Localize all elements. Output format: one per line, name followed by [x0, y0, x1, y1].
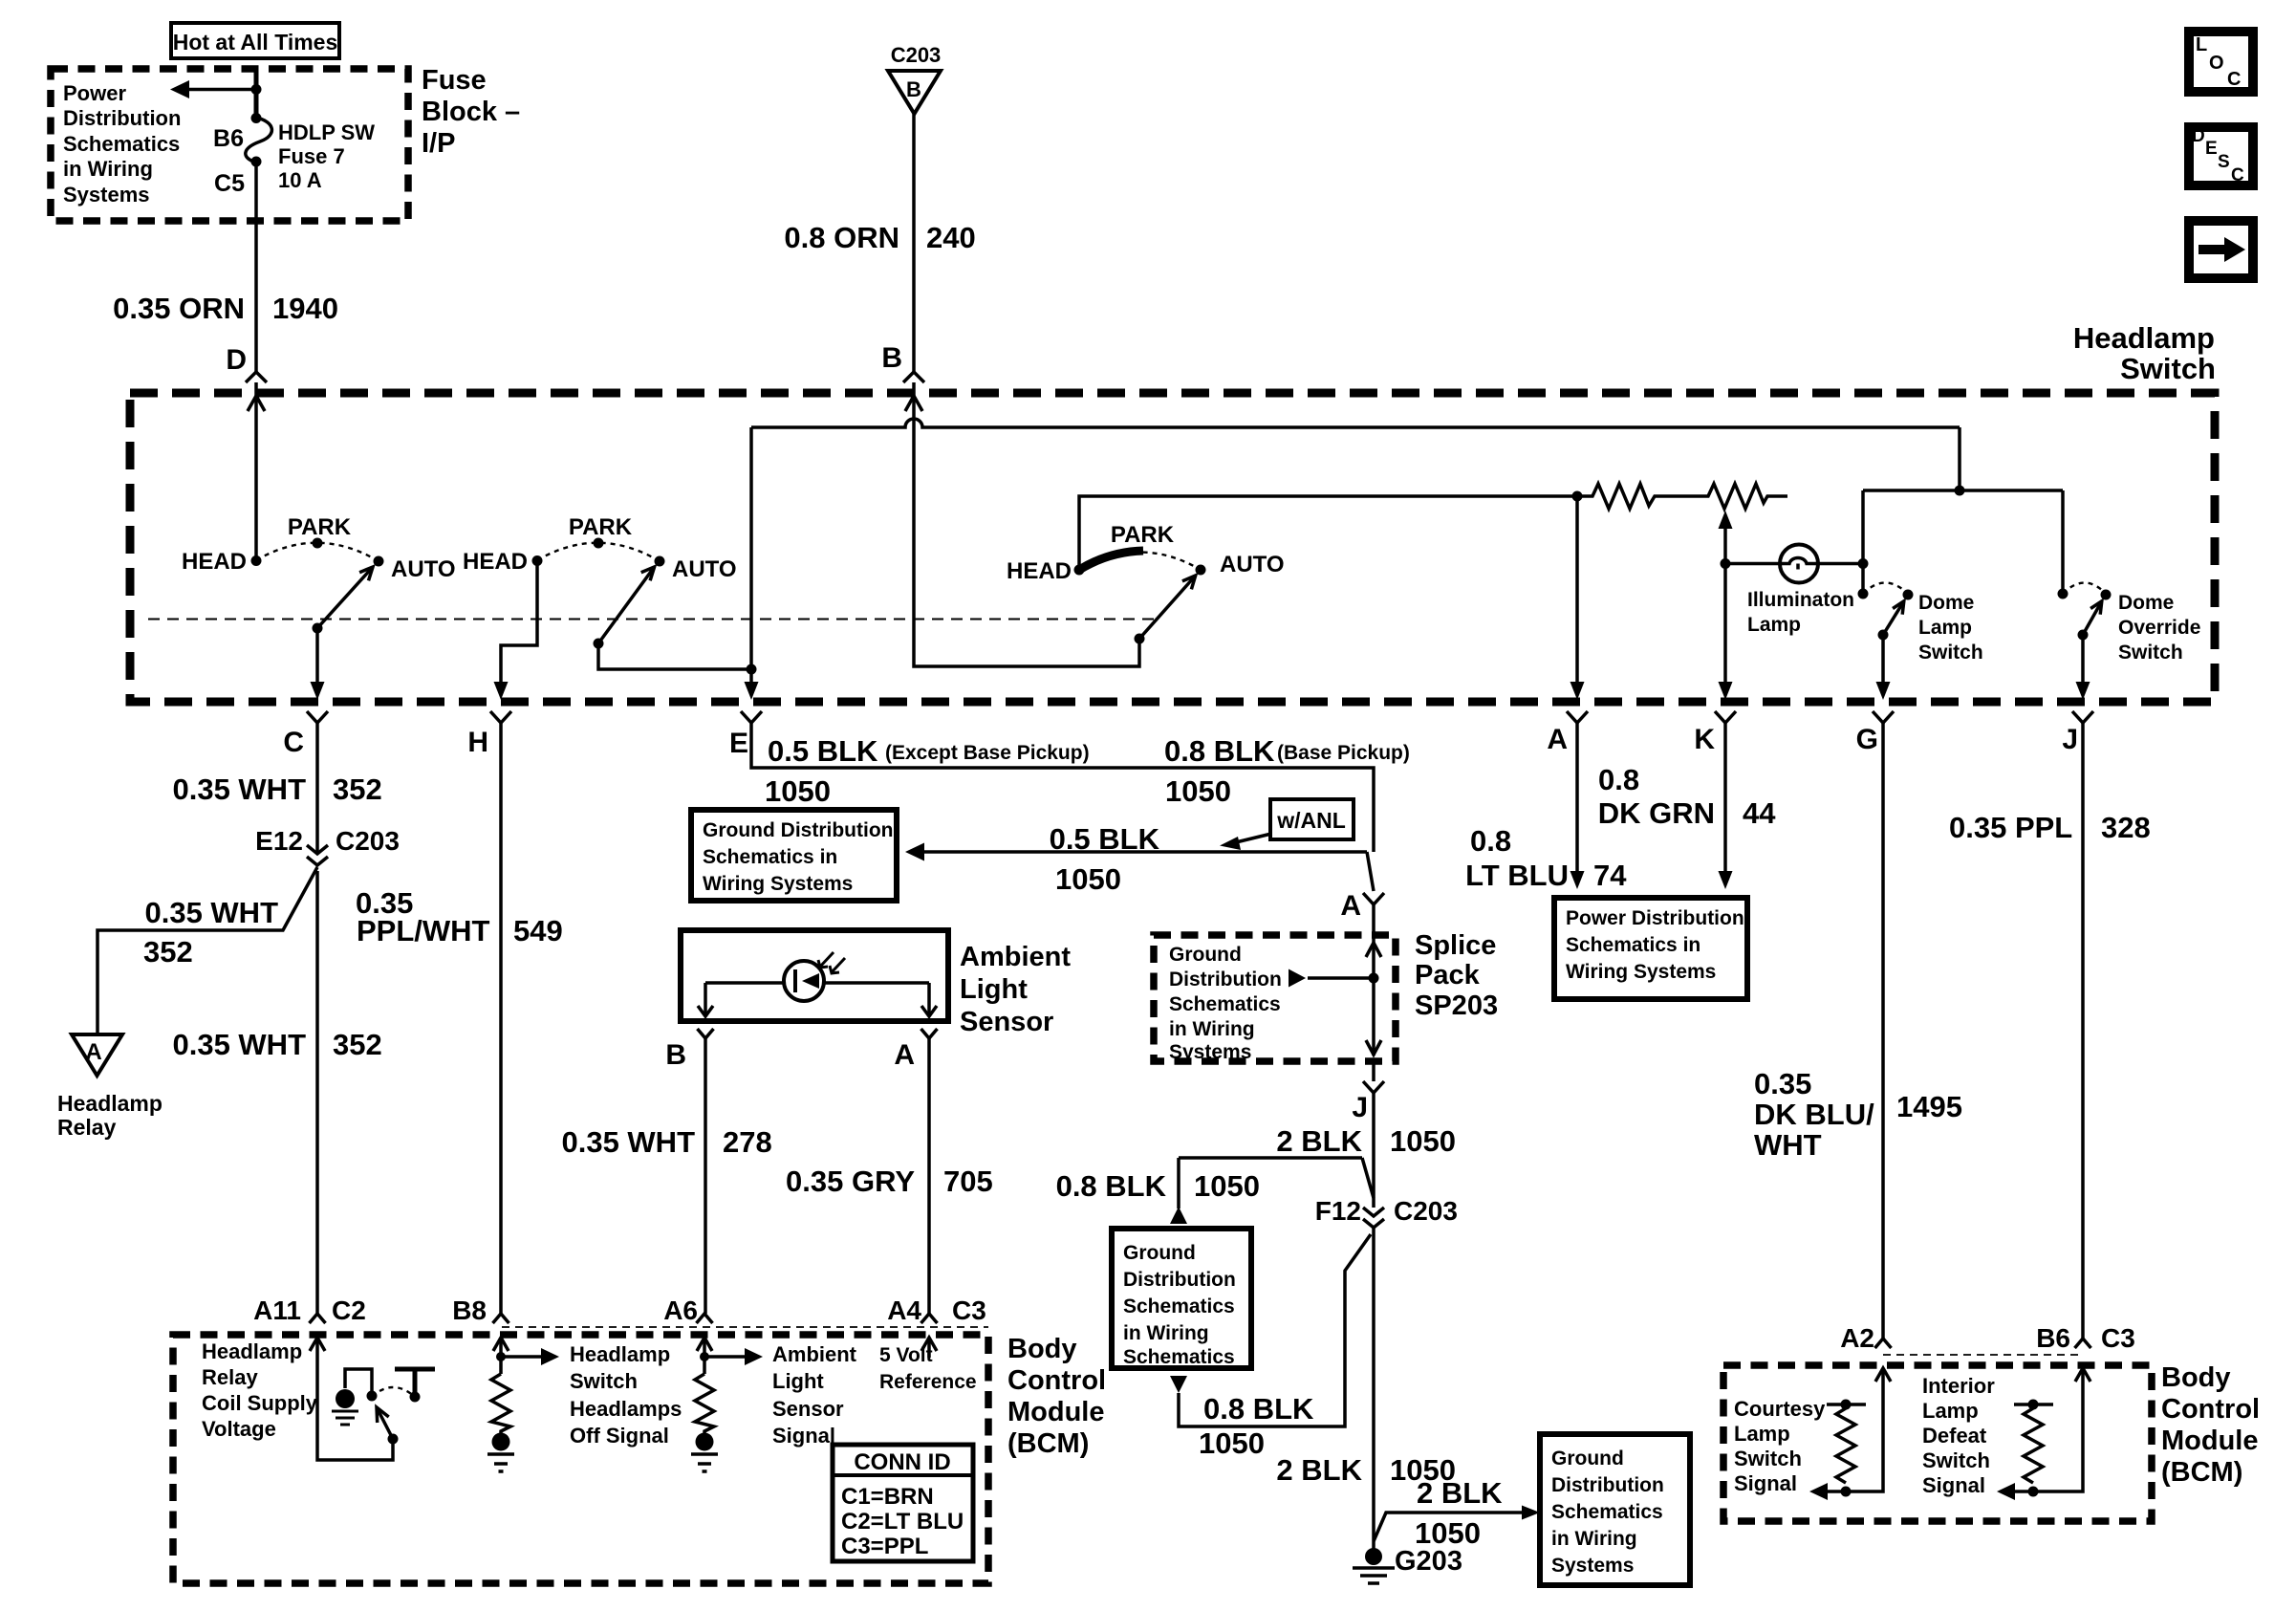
svg-text:D: D [226, 344, 247, 376]
svg-text:0.35 WHT: 0.35 WHT [561, 1125, 695, 1159]
svg-text:Off Signal: Off Signal [570, 1424, 669, 1448]
svg-text:J: J [1352, 1092, 1368, 1123]
svg-text:Headlamp: Headlamp [202, 1339, 302, 1363]
svg-text:Block –: Block – [422, 97, 520, 127]
svg-text:A6: A6 [663, 1295, 698, 1325]
svg-text:Ambient: Ambient [772, 1342, 857, 1366]
svg-text:A11: A11 [253, 1295, 301, 1325]
svg-text:Illuminaton: Illuminaton [1747, 589, 1854, 611]
svg-text:Switch: Switch [1918, 642, 1983, 664]
svg-text:B: B [906, 77, 921, 101]
svg-text:LT BLU: LT BLU [1465, 859, 1569, 892]
svg-text:(BCM): (BCM) [2161, 1457, 2242, 1488]
svg-text:in Wiring: in Wiring [1123, 1322, 1209, 1344]
svg-text:C3=PPL: C3=PPL [841, 1534, 928, 1559]
svg-text:B: B [665, 1039, 686, 1071]
svg-text:F12: F12 [1315, 1196, 1361, 1226]
svg-text:K: K [1694, 724, 1715, 755]
svg-text:A: A [85, 1039, 101, 1065]
svg-text:B8: B8 [452, 1295, 487, 1325]
svg-text:Signal: Signal [1922, 1473, 1985, 1497]
svg-text:Distribution: Distribution [1551, 1474, 1664, 1496]
svg-text:Fuse 7: Fuse 7 [278, 144, 345, 168]
svg-text:0.8 ORN: 0.8 ORN [784, 221, 899, 254]
svg-text:S: S [2218, 152, 2230, 172]
svg-text:2 BLK: 2 BLK [1417, 1476, 1503, 1510]
svg-text:Light: Light [960, 974, 1028, 1005]
svg-text:2 BLK: 2 BLK [1276, 1124, 1362, 1158]
svg-text:0.35 ORN: 0.35 ORN [113, 292, 245, 325]
svg-text:in Wiring: in Wiring [1169, 1018, 1255, 1040]
svg-text:0.8 BLK: 0.8 BLK [1056, 1169, 1167, 1203]
svg-text:0.8: 0.8 [1598, 763, 1639, 796]
svg-text:A: A [1547, 724, 1568, 755]
svg-text:CONN ID: CONN ID [854, 1449, 950, 1475]
svg-text:C5: C5 [214, 170, 245, 197]
svg-text:1940: 1940 [272, 292, 338, 325]
svg-text:E12: E12 [255, 826, 303, 856]
svg-text:Ground: Ground [1123, 1242, 1196, 1264]
svg-text:1050: 1050 [1390, 1124, 1456, 1158]
svg-text:G203: G203 [1395, 1546, 1462, 1577]
svg-text:AUTO: AUTO [1220, 552, 1285, 577]
svg-text:PARK: PARK [288, 514, 352, 540]
svg-text:B6: B6 [213, 125, 244, 152]
svg-text:C3: C3 [2101, 1323, 2135, 1353]
svg-text:Systems: Systems [1169, 1041, 1251, 1063]
svg-text:705: 705 [943, 1165, 993, 1198]
svg-text:(Except Base Pickup): (Except Base Pickup) [885, 742, 1090, 764]
svg-text:HEAD: HEAD [1007, 558, 1072, 584]
svg-text:Body: Body [1007, 1334, 1077, 1364]
svg-text:328: 328 [2101, 811, 2151, 844]
svg-text:Headlamp: Headlamp [570, 1342, 670, 1366]
svg-text:C203: C203 [336, 826, 400, 856]
svg-text:in Wiring: in Wiring [1551, 1528, 1637, 1550]
svg-text:Coil Supply: Coil Supply [202, 1391, 318, 1415]
svg-text:44: 44 [1743, 796, 1776, 830]
svg-text:0.35: 0.35 [1754, 1067, 1811, 1100]
svg-text:0.8: 0.8 [1470, 824, 1511, 858]
svg-text:Distribution: Distribution [63, 106, 181, 130]
svg-text:Headlamp: Headlamp [57, 1091, 162, 1116]
svg-text:Schematics: Schematics [63, 132, 180, 156]
svg-text:74: 74 [1593, 859, 1627, 892]
svg-text:Module: Module [2161, 1426, 2259, 1456]
svg-text:C3: C3 [952, 1295, 986, 1325]
svg-text:10 A: 10 A [278, 168, 322, 192]
svg-text:1495: 1495 [1896, 1090, 1962, 1123]
svg-text:Schematics: Schematics [1123, 1295, 1235, 1317]
svg-text:Schematics: Schematics [1123, 1346, 1235, 1368]
svg-text:Pack: Pack [1415, 960, 1481, 991]
svg-text:H: H [467, 727, 488, 758]
svg-text:C: C [2231, 165, 2244, 185]
svg-text:0.35 WHT: 0.35 WHT [172, 1028, 306, 1061]
svg-text:Lamp: Lamp [1922, 1399, 1979, 1423]
svg-text:Ground Distribution: Ground Distribution [703, 819, 893, 841]
svg-text:Dome: Dome [1918, 592, 1974, 614]
svg-text:1050: 1050 [1199, 1426, 1265, 1460]
svg-text:240: 240 [926, 221, 976, 254]
svg-text:Headlamp: Headlamp [2073, 321, 2215, 355]
svg-text:DK BLU/: DK BLU/ [1754, 1098, 1874, 1131]
svg-text:Switch: Switch [1922, 1448, 1990, 1472]
svg-text:Lamp: Lamp [1747, 614, 1801, 636]
svg-text:Dome: Dome [2118, 592, 2174, 614]
svg-text:352: 352 [143, 935, 193, 969]
svg-text:Schematics: Schematics [1169, 993, 1281, 1015]
svg-text:549: 549 [513, 914, 563, 947]
svg-text:O: O [2209, 53, 2224, 74]
svg-text:Hot at All Times: Hot at All Times [173, 30, 338, 54]
svg-text:E: E [2205, 139, 2218, 159]
svg-text:C1=BRN: C1=BRN [841, 1484, 934, 1510]
svg-text:Schematics in: Schematics in [1566, 934, 1700, 956]
svg-text:PARK: PARK [1111, 522, 1175, 548]
svg-text:Signal: Signal [772, 1424, 835, 1448]
svg-text:0.8 BLK: 0.8 BLK [1203, 1392, 1314, 1426]
svg-text:Systems: Systems [1551, 1555, 1634, 1577]
svg-text:A4: A4 [887, 1295, 921, 1325]
svg-text:0.5 BLK: 0.5 BLK [1050, 822, 1160, 856]
svg-text:WHT: WHT [1754, 1128, 1822, 1162]
svg-text:Switch: Switch [570, 1369, 638, 1393]
svg-text:PARK: PARK [569, 514, 633, 540]
svg-text:B6: B6 [2036, 1323, 2070, 1353]
svg-text:Override: Override [2118, 617, 2200, 639]
svg-text:w/ANL: w/ANL [1276, 808, 1346, 833]
svg-text:Wiring Systems: Wiring Systems [703, 873, 853, 895]
svg-text:Systems: Systems [63, 183, 150, 207]
svg-text:(Base Pickup): (Base Pickup) [1277, 742, 1410, 764]
svg-text:Ambient: Ambient [960, 942, 1071, 972]
svg-text:Schematics in: Schematics in [703, 846, 837, 868]
svg-text:Voltage: Voltage [202, 1417, 276, 1441]
svg-text:C: C [283, 727, 304, 758]
svg-text:E: E [729, 728, 748, 759]
svg-text:Power Distribution: Power Distribution [1566, 907, 1744, 929]
svg-text:Body: Body [2161, 1362, 2231, 1393]
svg-text:B: B [881, 342, 902, 374]
svg-text:A: A [894, 1039, 915, 1071]
svg-text:Interior: Interior [1922, 1374, 1995, 1398]
svg-text:G: G [1856, 724, 1878, 755]
svg-text:Relay: Relay [202, 1365, 258, 1389]
svg-text:SP203: SP203 [1415, 991, 1498, 1021]
svg-text:AUTO: AUTO [672, 556, 737, 582]
svg-text:C: C [2227, 69, 2241, 90]
svg-text:Control: Control [2161, 1394, 2260, 1425]
svg-text:5 Volt: 5 Volt [879, 1344, 933, 1366]
svg-text:0.35 WHT: 0.35 WHT [172, 773, 306, 806]
svg-text:1050: 1050 [1194, 1169, 1260, 1203]
svg-text:PPL/WHT: PPL/WHT [357, 914, 490, 947]
svg-text:Signal: Signal [1734, 1471, 1797, 1495]
svg-text:Lamp: Lamp [1734, 1422, 1790, 1446]
svg-text:C203: C203 [1394, 1196, 1458, 1226]
svg-text:Reference: Reference [879, 1371, 977, 1393]
svg-text:Switch: Switch [1734, 1447, 1802, 1470]
svg-text:Ground: Ground [1551, 1448, 1624, 1469]
svg-text:Splice: Splice [1415, 930, 1496, 961]
svg-text:D: D [2192, 126, 2205, 146]
svg-text:278: 278 [723, 1125, 772, 1159]
svg-text:Wiring Systems: Wiring Systems [1566, 961, 1716, 983]
svg-text:0.35 PPL: 0.35 PPL [1949, 811, 2072, 844]
svg-text:I/P: I/P [422, 128, 455, 159]
svg-text:C203: C203 [891, 43, 942, 67]
svg-text:HEAD: HEAD [463, 549, 528, 575]
svg-text:J: J [2062, 724, 2078, 755]
svg-text:AUTO: AUTO [391, 556, 456, 582]
svg-text:0.8 BLK: 0.8 BLK [1164, 734, 1275, 768]
svg-text:1050: 1050 [1055, 862, 1121, 896]
svg-text:L: L [2196, 34, 2207, 55]
svg-text:Relay: Relay [57, 1115, 117, 1140]
svg-text:Courtesy: Courtesy [1734, 1397, 1826, 1421]
svg-text:Module: Module [1007, 1397, 1105, 1427]
svg-text:Control: Control [1007, 1365, 1106, 1396]
svg-text:C2: C2 [332, 1295, 366, 1325]
svg-text:0.35 GRY: 0.35 GRY [786, 1165, 915, 1198]
svg-text:C2=LT BLU: C2=LT BLU [841, 1509, 964, 1535]
svg-text:Distribution: Distribution [1123, 1269, 1236, 1291]
svg-text:Schematics: Schematics [1551, 1501, 1663, 1523]
svg-text:0.35 WHT: 0.35 WHT [144, 896, 278, 929]
svg-text:352: 352 [333, 1028, 382, 1061]
svg-text:Light: Light [772, 1369, 824, 1393]
svg-text:A2: A2 [1840, 1323, 1874, 1353]
svg-text:Ground: Ground [1169, 944, 1242, 966]
svg-text:Switch: Switch [2118, 642, 2183, 664]
svg-text:(BCM): (BCM) [1007, 1428, 1089, 1459]
svg-text:Fuse: Fuse [422, 65, 487, 96]
svg-text:A: A [1340, 890, 1361, 922]
svg-text:Defeat: Defeat [1922, 1424, 1987, 1448]
svg-text:1050: 1050 [1415, 1516, 1481, 1550]
svg-text:HEAD: HEAD [182, 549, 247, 575]
svg-text:2 BLK: 2 BLK [1276, 1453, 1362, 1487]
svg-text:Headlamps: Headlamps [570, 1397, 682, 1421]
svg-text:0.5 BLK: 0.5 BLK [768, 734, 878, 768]
svg-text:Distribution: Distribution [1169, 969, 1282, 991]
svg-text:Sensor: Sensor [772, 1397, 844, 1421]
svg-text:Switch: Switch [2120, 352, 2216, 385]
svg-text:Sensor: Sensor [960, 1007, 1053, 1037]
svg-text:in Wiring: in Wiring [63, 157, 153, 181]
svg-text:1050: 1050 [1165, 774, 1231, 808]
svg-text:HDLP SW: HDLP SW [278, 120, 375, 144]
svg-text:Power: Power [63, 81, 126, 105]
svg-text:352: 352 [333, 773, 382, 806]
svg-text:Lamp: Lamp [1918, 617, 1972, 639]
svg-text:DK GRN: DK GRN [1598, 796, 1715, 830]
svg-text:1050: 1050 [765, 774, 831, 808]
